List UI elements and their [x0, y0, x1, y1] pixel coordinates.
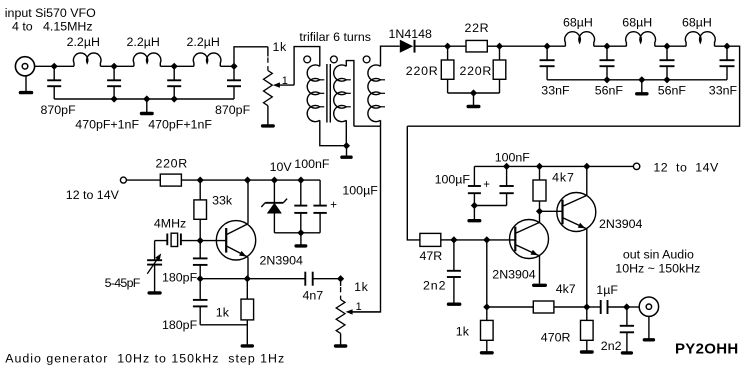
- wiper arrow R2: [346, 309, 381, 314]
- ground under J1: [19, 76, 34, 94]
- trimmer capacitor C9 5-45pF: [147, 253, 162, 291]
- junction attenuator ground: [470, 89, 477, 96]
- svg-text:100nF: 100nF: [294, 157, 330, 171]
- capacitor C17 1uF: [601, 300, 608, 314]
- svg-text:180pF: 180pF: [162, 271, 198, 285]
- capacitor C14 2n2: [447, 240, 461, 303]
- node Q junction: [483, 303, 490, 310]
- node O junction: [450, 236, 457, 243]
- wire L5 left lead: [607, 45, 626, 47]
- svg-text:2.2µH: 2.2µH: [187, 35, 220, 49]
- wire R11 top lead: [486, 307, 488, 320]
- svg-text:33nF: 33nF: [541, 83, 570, 97]
- wire R10 top lead: [539, 166, 541, 180]
- junction rail-100nF: [297, 177, 304, 184]
- potentiometer R1 1k: [267, 47, 269, 57]
- capacitor C3 470pF+1nF: [167, 66, 181, 99]
- svg-text:870pF: 870pF: [41, 103, 77, 117]
- wire R13 top lead: [586, 307, 588, 320]
- wire node O to node P: [454, 239, 487, 241]
- junction rail-ground: [143, 95, 150, 102]
- wire R11 bottom lead: [486, 340, 488, 351]
- junction rail-Q3C: [583, 163, 590, 170]
- wire L4 left lead: [547, 45, 565, 47]
- ground under T1: [340, 146, 353, 159]
- ground under trimmer: [147, 291, 161, 294]
- svg-text:33nF: 33nF: [709, 83, 738, 97]
- svg-text:+: +: [330, 199, 337, 211]
- svg-text:220R: 220R: [406, 64, 439, 78]
- resistor R13 470R: [581, 320, 594, 340]
- output connector J2: [639, 297, 658, 316]
- capacitor C11 100nF osc: [294, 180, 307, 233]
- wire C17 to node S: [608, 306, 627, 308]
- crystal X1 4MHz: [155, 233, 201, 246]
- wire L3 left lead: [174, 65, 194, 67]
- wire R10 bottom lead: [539, 201, 541, 211]
- node G junction: [544, 43, 551, 50]
- junction rail2-C6: [603, 76, 610, 83]
- svg-text:870pF: 870pF: [215, 103, 251, 117]
- potentiometer R2 zigzag: [336, 300, 345, 334]
- wire T1 w2 bottom: [345, 120, 347, 145]
- transistor Q1 2N3904: [216, 221, 255, 260]
- ground zener node: [294, 233, 307, 248]
- ground under R2: [334, 333, 348, 347]
- junction rail2-C7: [663, 76, 670, 83]
- wire zener bottom rail: [274, 232, 320, 234]
- wire D1 to node E: [415, 45, 448, 47]
- svg-text:+: +: [483, 179, 490, 191]
- ground under R13: [580, 350, 594, 353]
- wire R12 to node R: [554, 306, 587, 308]
- svg-text:out sin Audio: out sin Audio: [623, 248, 694, 262]
- node R junction: [583, 303, 590, 310]
- wire L6 left lead: [667, 45, 686, 47]
- wire C16 bottom to C15: [474, 205, 506, 207]
- svg-text:5-45pF: 5-45pF: [105, 276, 141, 290]
- node E junction: [444, 43, 451, 50]
- wire LPF bottom rail: [54, 98, 234, 100]
- svg-text:1k: 1k: [456, 324, 470, 338]
- capacitor C10a 180pF: [193, 241, 208, 279]
- svg-text:47R: 47R: [420, 249, 443, 263]
- wire L1 left lead: [54, 65, 74, 67]
- resistor R10 4k7: [533, 180, 546, 201]
- node D junction: [230, 63, 237, 70]
- wire L2 right lead: [160, 65, 174, 67]
- svg-text:4n7: 4n7: [303, 288, 324, 302]
- node L base junction: [197, 237, 204, 244]
- svg-text:470pF+1nF: 470pF+1nF: [75, 117, 139, 131]
- ground under R11: [480, 351, 494, 354]
- svg-text:2n2: 2n2: [601, 339, 622, 353]
- node H junction: [603, 43, 610, 50]
- svg-text:220R: 220R: [156, 157, 188, 171]
- wire C10b bottom to R8: [200, 324, 247, 326]
- potentiometer R1 zigzag: [264, 71, 273, 106]
- svg-text:trifilar 6 turns: trifilar 6 turns: [299, 30, 371, 44]
- svg-text:68µH: 68µH: [622, 16, 652, 30]
- wire osc rail: [200, 179, 320, 181]
- wire L2 left lead: [114, 65, 134, 67]
- wire L5 right lead: [655, 45, 667, 47]
- wire R5 top lead: [499, 46, 501, 60]
- wire down to amp 47R: [407, 126, 420, 240]
- svg-text:56nF: 56nF: [595, 83, 624, 97]
- wire Q2 emitter down: [539, 256, 541, 284]
- input connector J1: [15, 57, 34, 76]
- svg-text:1: 1: [282, 75, 288, 87]
- wire R3 bottom lead: [447, 79, 449, 93]
- wire Q1 collector up: [247, 180, 249, 224]
- junction rail2-ground: [638, 76, 645, 83]
- svg-text:4MHz: 4MHz: [154, 216, 186, 230]
- wire Q1 base lead: [200, 240, 226, 242]
- svg-text:22R: 22R: [465, 21, 490, 35]
- svg-text:input Si570 VFO: input Si570 VFO: [5, 6, 96, 20]
- wire node P down: [486, 240, 488, 307]
- wire node P to Q2 base: [487, 239, 516, 241]
- inductor L2 2.2uH: [133, 53, 161, 66]
- supply terminal amp: [633, 163, 639, 169]
- capacitor C15 100uF amp: [468, 166, 481, 205]
- node C junction: [171, 63, 178, 70]
- wire LPF2 bottom rail: [547, 79, 727, 81]
- wire Q3 collector up: [586, 166, 588, 195]
- inductor L1 2.2uH: [73, 53, 101, 66]
- ground under C18: [621, 351, 633, 354]
- svg-text:2.2µH: 2.2µH: [67, 35, 100, 49]
- svg-text:220R: 220R: [460, 64, 493, 78]
- transistor Q2 2N3904: [510, 220, 549, 259]
- wire Q3 emitter down: [586, 229, 588, 307]
- transistor Q3 2N3904: [557, 193, 596, 232]
- capacitor C5 33nF: [540, 46, 555, 80]
- resistor R9 47R: [420, 233, 441, 246]
- junction rail-C2: [111, 95, 118, 102]
- wire emitter node to Q1: [200, 278, 247, 280]
- wire attenuator bottom: [448, 92, 500, 94]
- junction C15 ground: [471, 202, 478, 209]
- wire node E to R4: [448, 45, 466, 47]
- capacitor C7 56nF: [660, 46, 675, 80]
- junction emitter-Q1: [244, 275, 251, 282]
- svg-text:470R: 470R: [541, 330, 571, 344]
- wire LPF2 out down-left: [407, 46, 739, 126]
- svg-text:4k7: 4k7: [556, 282, 576, 296]
- svg-text:180pF: 180pF: [162, 318, 198, 332]
- transformer T1 winding 2: [334, 65, 351, 122]
- wire L1 right lead: [100, 65, 114, 67]
- node N junction: [337, 275, 344, 282]
- svg-text:1: 1: [356, 301, 362, 313]
- node F junction: [496, 43, 503, 50]
- svg-text:2.2µH: 2.2µH: [127, 35, 160, 49]
- resistor R3 220R: [441, 60, 454, 79]
- wire node S to J2: [627, 306, 640, 308]
- wire R8 top lead: [246, 279, 248, 299]
- capacitor C12 100uF osc: [313, 180, 326, 233]
- svg-text:2N3904: 2N3904: [260, 253, 304, 267]
- wire L3 right lead: [220, 65, 234, 67]
- phase dot winding 3: [363, 56, 370, 63]
- node B junction: [111, 63, 118, 70]
- capacitor C13 4n7: [305, 272, 312, 286]
- ground LPF rail: [140, 99, 154, 115]
- junction rail-R10: [536, 163, 543, 170]
- junction T1 ground node: [343, 142, 350, 149]
- wire R5 bottom lead: [499, 79, 501, 93]
- wire R7 bottom lead: [199, 219, 201, 240]
- svg-text:100µF: 100µF: [435, 172, 471, 186]
- wire node F to LPF2: [500, 45, 548, 47]
- wire T1 w1 bottom: [320, 120, 347, 145]
- svg-text:68µH: 68µH: [682, 16, 712, 30]
- capacitor C8 33nF: [720, 46, 735, 80]
- wire T1 w3 bottom junction: [354, 120, 381, 126]
- svg-text:2n2: 2n2: [423, 278, 446, 292]
- wire R7 top lead: [199, 180, 201, 200]
- junction Q2C-R10: [536, 208, 543, 215]
- svg-text:1k: 1k: [273, 40, 287, 54]
- inductor L3 2.2uH: [193, 53, 221, 66]
- inductor L6 68uH: [685, 32, 715, 46]
- ground under R8: [241, 344, 255, 347]
- transformer T1 core: [327, 64, 330, 123]
- resistor R5 220R: [493, 60, 506, 79]
- diode D1 1N4148: [400, 40, 415, 53]
- node I junction: [663, 43, 670, 50]
- ground under R1: [261, 106, 275, 128]
- svg-text:10V: 10V: [270, 160, 293, 174]
- node M emitter junction: [197, 275, 204, 282]
- resistor R7 33k: [194, 200, 207, 219]
- svg-text:12 to 14V: 12 to 14V: [66, 188, 120, 202]
- junction rail-C3: [171, 95, 178, 102]
- capacitor C4 870pF: [227, 66, 241, 99]
- inductor L5 68uH: [626, 32, 656, 46]
- ground amp filter: [467, 206, 481, 223]
- wire amp power rail: [474, 165, 633, 167]
- capacitor C16 100nF amp: [499, 166, 513, 205]
- inductor L4 68uH: [565, 32, 595, 46]
- svg-text:1k: 1k: [354, 280, 368, 294]
- resistor R8 1k: [241, 299, 254, 320]
- svg-text:4k7: 4k7: [552, 171, 575, 185]
- svg-text:100µF: 100µF: [342, 184, 378, 198]
- wire node Q to R12: [487, 306, 534, 308]
- node A junction: [51, 63, 58, 70]
- wire crystal to trimmer: [154, 241, 156, 261]
- node J junction: [723, 43, 730, 50]
- resistor R11 1k: [481, 320, 494, 340]
- wire node R to C17: [587, 306, 601, 308]
- svg-text:2N3904: 2N3904: [599, 217, 643, 231]
- wiper arrow R1: [273, 82, 294, 87]
- svg-text:1k: 1k: [216, 305, 230, 319]
- ground under Q2: [532, 284, 547, 287]
- wire L4 right lead: [594, 45, 607, 47]
- wire R6 to node K: [181, 179, 200, 181]
- node S junction: [623, 303, 630, 310]
- potentiometer R2 1k: [340, 279, 342, 286]
- wire L6 right lead: [715, 45, 728, 47]
- svg-text:470pF+1nF: 470pF+1nF: [148, 117, 212, 131]
- capacitor C10b 180pF: [193, 279, 208, 325]
- junction rail-zener: [271, 177, 278, 184]
- wire J1 to node A: [35, 65, 55, 67]
- ground under J2: [643, 316, 656, 341]
- capacitor C6 56nF: [600, 46, 615, 80]
- ground under C14: [447, 303, 462, 306]
- wire Q2 collector to Q3 base: [540, 210, 563, 212]
- wire R9 to node O: [441, 239, 454, 241]
- wire R3 top lead: [447, 46, 449, 60]
- wire R13 bottom lead: [586, 340, 588, 350]
- wire R8 bottom lead: [246, 320, 248, 345]
- node P junction: [483, 236, 490, 243]
- svg-text:PY2OHH: PY2OHH: [675, 340, 739, 357]
- wire Q1 emitter down: [247, 257, 249, 279]
- wire terminal to R6: [126, 179, 160, 181]
- wire R4 to node F: [487, 45, 499, 47]
- svg-text:10Hz ~ 150kHz: 10Hz ~ 150kHz: [615, 262, 700, 276]
- junction rail-collector Q1: [244, 177, 251, 184]
- resistor R12 4k7: [533, 301, 554, 313]
- capacitor C18 2n2: [620, 307, 634, 352]
- resistor R6 220R: [160, 174, 181, 186]
- svg-text:56nF: 56nF: [658, 83, 687, 97]
- svg-text:4 to 4.15MHz: 4 to 4.15MHz: [12, 20, 93, 34]
- svg-text:12 to 14V: 12 to 14V: [653, 160, 719, 174]
- wire node D to pot R1: [234, 47, 268, 67]
- ground LPF2 rail: [635, 80, 649, 96]
- capacitor C2 470pF+1nF: [107, 66, 121, 99]
- wire T1 w2 top: [346, 61, 354, 127]
- transformer T1 winding 3: [368, 65, 385, 122]
- transformer T1 winding 1: [307, 65, 324, 122]
- svg-text:2N3904: 2N3904: [492, 267, 536, 281]
- supply terminal oscillator: [120, 177, 126, 183]
- node K junction: [197, 177, 204, 184]
- svg-text:68µH: 68µH: [563, 16, 593, 30]
- wire T1 to pot R2 wiper: [352, 126, 380, 312]
- capacitor C1 870pF: [47, 66, 61, 99]
- svg-text:1N4148: 1N4148: [389, 27, 433, 41]
- junction rail-C16: [503, 163, 510, 170]
- wire R1 wiper to T1: [294, 47, 320, 86]
- svg-text:Audio generator 10Hz to 150kH: Audio generator 10Hz to 150kHz step 1Hz: [5, 352, 285, 366]
- wire Q2 collector up: [539, 211, 541, 222]
- svg-text:100nF: 100nF: [495, 151, 531, 165]
- svg-text:1µF: 1µF: [596, 283, 618, 297]
- phase dot winding 1: [304, 56, 311, 63]
- resistor R4 22R: [466, 40, 487, 52]
- wire T1 w3 top to diode: [381, 46, 400, 66]
- wire emitter to C13: [247, 278, 305, 280]
- svg-text:33k: 33k: [212, 194, 233, 208]
- junction zener ground: [297, 229, 304, 236]
- wire C13 to pot R2: [313, 278, 341, 280]
- zener diode D2 10V: [261, 180, 287, 233]
- ground attenuator: [467, 93, 481, 108]
- phase dot winding 2: [331, 56, 338, 63]
